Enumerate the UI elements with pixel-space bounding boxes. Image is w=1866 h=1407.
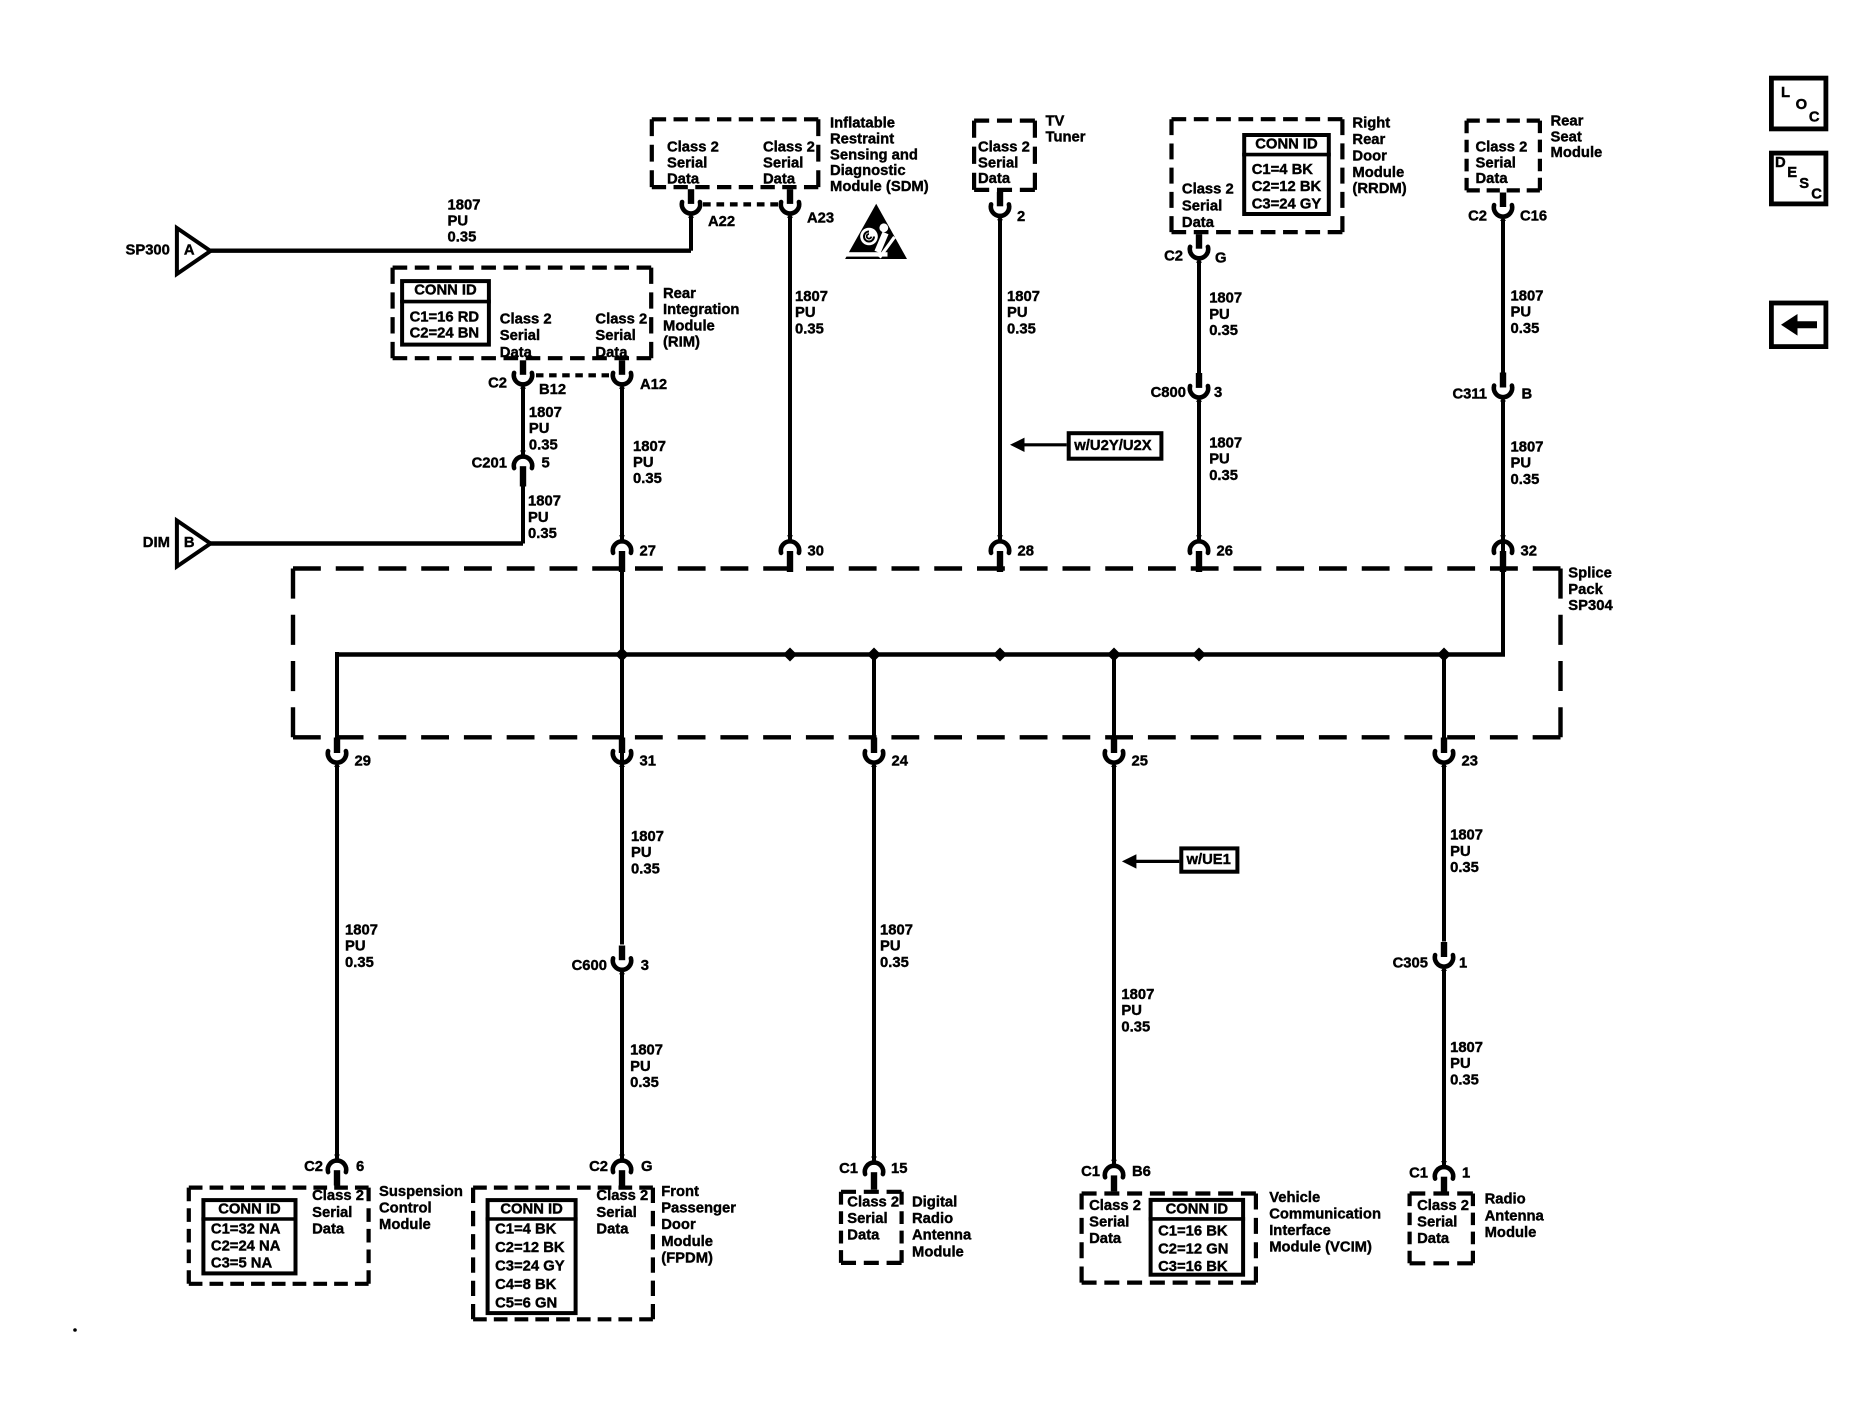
svg-text:Communication: Communication: [1269, 1207, 1381, 1223]
svg-text:PU: PU: [1209, 452, 1230, 468]
svg-text:Serial: Serial: [1417, 1215, 1457, 1231]
svg-text:Data: Data: [500, 345, 533, 361]
svg-text:Radio: Radio: [912, 1211, 953, 1227]
svg-text:C600: C600: [572, 958, 607, 974]
svg-text:Class 2: Class 2: [312, 1188, 364, 1204]
svg-text:Module: Module: [379, 1217, 431, 1233]
svg-text:Data: Data: [1182, 215, 1215, 231]
svg-text:Module: Module: [661, 1234, 713, 1250]
svg-text:PU: PU: [1450, 844, 1471, 860]
svg-text:B: B: [1522, 387, 1533, 403]
svg-text:6: 6: [356, 1159, 364, 1175]
svg-text:Data: Data: [312, 1221, 345, 1237]
svg-text:S: S: [1799, 176, 1809, 192]
svg-text:0.35: 0.35: [1511, 472, 1540, 488]
svg-text:Serial: Serial: [1476, 155, 1516, 171]
svg-text:15: 15: [891, 1161, 907, 1177]
svg-text:1807: 1807: [345, 923, 378, 939]
svg-text:CONN ID: CONN ID: [500, 1202, 563, 1218]
svg-text:Module (SDM): Module (SDM): [830, 179, 929, 195]
svg-text:1807: 1807: [1511, 440, 1544, 456]
svg-text:SP304: SP304: [1568, 598, 1613, 614]
svg-text:C4=8 BK: C4=8 BK: [495, 1277, 557, 1293]
svg-text:PU: PU: [1511, 456, 1532, 472]
svg-text:Data: Data: [978, 171, 1011, 187]
svg-text:Front: Front: [661, 1184, 699, 1200]
svg-text:3: 3: [641, 958, 649, 974]
svg-text:C3=24 GY: C3=24 GY: [495, 1259, 565, 1275]
svg-text:0.35: 0.35: [630, 1075, 659, 1091]
svg-text:0.35: 0.35: [448, 230, 477, 246]
svg-text:0.35: 0.35: [795, 321, 824, 337]
svg-text:1807: 1807: [630, 1043, 663, 1059]
svg-text:Tuner: Tuner: [1046, 129, 1086, 145]
svg-text:w/U2Y/U2X: w/U2Y/U2X: [1073, 438, 1151, 454]
svg-text:1: 1: [1462, 1166, 1470, 1182]
svg-text:DIM: DIM: [143, 535, 170, 551]
svg-text:PU: PU: [1209, 307, 1230, 323]
svg-text:1807: 1807: [1511, 289, 1544, 305]
svg-text:1807: 1807: [1209, 291, 1242, 307]
svg-text:26: 26: [1217, 543, 1233, 559]
svg-text:B: B: [184, 535, 195, 551]
svg-text:29: 29: [355, 754, 371, 770]
svg-text:Serial: Serial: [595, 328, 635, 344]
svg-text:(RIM): (RIM): [663, 335, 700, 351]
svg-text:A23: A23: [807, 211, 834, 227]
svg-text:28: 28: [1018, 543, 1034, 559]
svg-text:CONN ID: CONN ID: [414, 283, 477, 299]
svg-text:D: D: [1775, 155, 1786, 171]
svg-text:Module: Module: [663, 318, 715, 334]
svg-text:(FPDM): (FPDM): [661, 1250, 713, 1266]
svg-text:PU: PU: [1450, 1056, 1471, 1072]
svg-text:C1=16 BK: C1=16 BK: [1158, 1224, 1228, 1240]
svg-text:31: 31: [640, 754, 656, 770]
svg-text:30: 30: [808, 543, 824, 559]
svg-text:Pack: Pack: [1568, 582, 1603, 598]
svg-text:A: A: [184, 243, 195, 259]
svg-text:Data: Data: [847, 1228, 880, 1244]
svg-text:C1=16 RD: C1=16 RD: [410, 310, 480, 326]
svg-text:Class 2: Class 2: [763, 140, 815, 156]
svg-text:1807: 1807: [633, 439, 666, 455]
svg-text:Class 2: Class 2: [667, 140, 719, 156]
svg-text:Data: Data: [1417, 1231, 1450, 1247]
svg-text:Class 2: Class 2: [1089, 1198, 1141, 1214]
svg-text:Passenger: Passenger: [661, 1201, 736, 1217]
svg-text:PU: PU: [880, 939, 901, 955]
svg-text:Sensing and: Sensing and: [830, 147, 918, 163]
svg-text:1807: 1807: [1450, 828, 1483, 844]
svg-text:Module: Module: [1551, 145, 1603, 161]
svg-text:0.35: 0.35: [1450, 860, 1479, 876]
svg-text:Class 2: Class 2: [978, 140, 1030, 156]
svg-text:Data: Data: [763, 171, 796, 187]
svg-text:Suspension: Suspension: [379, 1184, 463, 1200]
svg-text:1807: 1807: [448, 197, 481, 213]
svg-text:Rear: Rear: [663, 286, 696, 302]
svg-text:23: 23: [1462, 754, 1478, 770]
svg-text:PU: PU: [528, 510, 549, 526]
svg-text:1807: 1807: [1007, 289, 1040, 305]
svg-text:0.35: 0.35: [631, 861, 660, 877]
svg-text:Control: Control: [379, 1201, 432, 1217]
svg-text:0.35: 0.35: [1007, 321, 1036, 337]
svg-text:PU: PU: [633, 455, 654, 471]
svg-text:Inflatable: Inflatable: [830, 116, 895, 132]
svg-text:Vehicle: Vehicle: [1269, 1190, 1320, 1206]
svg-text:Data: Data: [596, 1221, 629, 1237]
svg-text:C16: C16: [1520, 209, 1547, 225]
svg-text:Serial: Serial: [596, 1205, 636, 1221]
svg-text:PU: PU: [630, 1059, 651, 1075]
svg-text:C1=4 BK: C1=4 BK: [495, 1222, 557, 1238]
svg-text:C1=32 NA: C1=32 NA: [211, 1222, 281, 1238]
svg-text:A22: A22: [708, 214, 735, 230]
svg-text:Data: Data: [1089, 1231, 1122, 1247]
svg-text:TV: TV: [1046, 114, 1065, 130]
svg-text:Rear: Rear: [1352, 132, 1385, 148]
svg-text:0.35: 0.35: [529, 437, 558, 453]
svg-text:Data: Data: [595, 345, 628, 361]
svg-text:B6: B6: [1132, 1164, 1151, 1180]
svg-text:G: G: [1215, 251, 1227, 267]
svg-text:Class 2: Class 2: [1417, 1198, 1469, 1214]
svg-text:C3=5 NA: C3=5 NA: [211, 1256, 273, 1272]
svg-text:0.35: 0.35: [1209, 323, 1238, 339]
svg-text:Digital: Digital: [912, 1195, 957, 1211]
svg-text:C2=12 BK: C2=12 BK: [495, 1240, 565, 1256]
svg-text:C2: C2: [1468, 209, 1487, 225]
svg-text:Serial: Serial: [312, 1205, 352, 1221]
svg-text:Data: Data: [667, 171, 700, 187]
svg-text:C2: C2: [304, 1159, 323, 1175]
svg-text:CONN ID: CONN ID: [1166, 1201, 1229, 1217]
svg-text:PU: PU: [631, 845, 652, 861]
svg-text:CONN ID: CONN ID: [218, 1202, 281, 1218]
svg-text:C2=12 GN: C2=12 GN: [1158, 1241, 1228, 1257]
svg-text:0.35: 0.35: [345, 955, 374, 971]
svg-text:0.35: 0.35: [880, 955, 909, 971]
svg-text:Splice: Splice: [1568, 566, 1612, 582]
svg-text:27: 27: [640, 543, 656, 559]
svg-text:Class 2: Class 2: [500, 311, 552, 327]
svg-text:Class 2: Class 2: [596, 1188, 648, 1204]
svg-text:1807: 1807: [528, 494, 561, 510]
svg-text:Seat: Seat: [1551, 129, 1582, 145]
svg-text:A12: A12: [640, 377, 667, 393]
svg-text:O: O: [1796, 97, 1808, 113]
svg-text:C1=4 BK: C1=4 BK: [1252, 162, 1314, 178]
svg-text:1807: 1807: [1121, 987, 1154, 1003]
svg-text:Serial: Serial: [1089, 1215, 1129, 1231]
svg-text:C: C: [1809, 109, 1820, 125]
svg-text:24: 24: [892, 754, 909, 770]
svg-text:C1: C1: [839, 1161, 858, 1177]
svg-text:Serial: Serial: [978, 155, 1018, 171]
svg-text:C201: C201: [472, 456, 507, 472]
svg-text:Antenna: Antenna: [1485, 1208, 1545, 1224]
svg-text:0.35: 0.35: [1511, 321, 1540, 337]
svg-text:Diagnostic: Diagnostic: [830, 163, 906, 179]
svg-text:C311: C311: [1452, 387, 1487, 403]
svg-text:Door: Door: [661, 1217, 696, 1233]
svg-text:Module: Module: [912, 1244, 964, 1260]
svg-text:C800: C800: [1151, 385, 1186, 401]
svg-text:1807: 1807: [880, 923, 913, 939]
svg-text:0.35: 0.35: [1209, 468, 1238, 484]
svg-text:C: C: [1811, 187, 1822, 203]
svg-text:PU: PU: [1511, 305, 1532, 321]
svg-text:CONN ID: CONN ID: [1255, 137, 1318, 153]
svg-text:Class 2: Class 2: [1476, 140, 1528, 156]
svg-text:C2: C2: [589, 1159, 608, 1175]
svg-text:2: 2: [1017, 209, 1025, 225]
svg-text:Class 2: Class 2: [1182, 182, 1234, 198]
svg-text:1807: 1807: [1450, 1040, 1483, 1056]
svg-text:Antenna: Antenna: [912, 1228, 972, 1244]
svg-text:Rear: Rear: [1551, 114, 1584, 130]
svg-text:PU: PU: [529, 421, 550, 437]
svg-text:E: E: [1787, 165, 1797, 181]
svg-text:5: 5: [542, 456, 550, 472]
svg-text:0.35: 0.35: [528, 526, 557, 542]
svg-text:1807: 1807: [529, 405, 562, 421]
svg-text:C305: C305: [1393, 956, 1428, 972]
svg-text:Serial: Serial: [500, 328, 540, 344]
svg-text:C3=24 GY: C3=24 GY: [1252, 196, 1322, 212]
svg-text:Door: Door: [1352, 148, 1387, 164]
svg-text:Serial: Serial: [847, 1211, 887, 1227]
svg-text:G: G: [641, 1159, 653, 1175]
svg-text:Module: Module: [1485, 1225, 1537, 1241]
svg-text:C2=12 BK: C2=12 BK: [1252, 179, 1322, 195]
svg-text:C1: C1: [1409, 1166, 1428, 1182]
svg-text:Restraint: Restraint: [830, 132, 894, 148]
svg-text:Interface: Interface: [1269, 1223, 1331, 1239]
svg-text:B12: B12: [539, 382, 566, 398]
svg-text:Module (VCIM): Module (VCIM): [1269, 1240, 1372, 1256]
svg-text:Serial: Serial: [1182, 198, 1222, 214]
svg-text:Class 2: Class 2: [847, 1195, 899, 1211]
svg-text:C2: C2: [488, 376, 507, 392]
svg-text:Serial: Serial: [667, 156, 707, 172]
svg-text:3: 3: [1214, 385, 1222, 401]
svg-text:C3=16 BK: C3=16 BK: [1158, 1259, 1228, 1275]
svg-text:Radio: Radio: [1485, 1192, 1526, 1208]
svg-text:Module: Module: [1352, 165, 1404, 181]
svg-text:PU: PU: [448, 214, 469, 230]
svg-text:C5=6 GN: C5=6 GN: [495, 1296, 557, 1312]
svg-text:1807: 1807: [795, 289, 828, 305]
svg-text:C2: C2: [1164, 249, 1183, 265]
svg-text:0.35: 0.35: [1450, 1072, 1479, 1088]
svg-text:Integration: Integration: [663, 302, 739, 318]
svg-text:(RRDM): (RRDM): [1352, 181, 1406, 197]
svg-text:C1: C1: [1081, 1164, 1100, 1180]
svg-text:PU: PU: [1007, 305, 1028, 321]
svg-text:C2=24 BN: C2=24 BN: [410, 326, 480, 342]
svg-text:PU: PU: [1121, 1003, 1142, 1019]
svg-text:w/UE1: w/UE1: [1186, 852, 1231, 868]
svg-text:C2=24 NA: C2=24 NA: [211, 1239, 281, 1255]
svg-text:PU: PU: [345, 939, 366, 955]
svg-text:L: L: [1781, 85, 1790, 101]
svg-text:Data: Data: [1476, 171, 1509, 187]
svg-text:SP300: SP300: [125, 243, 169, 259]
svg-text:Class 2: Class 2: [595, 311, 647, 327]
svg-text:PU: PU: [795, 305, 816, 321]
svg-text:1: 1: [1459, 956, 1467, 972]
svg-text:0.35: 0.35: [633, 471, 662, 487]
svg-text:25: 25: [1132, 754, 1148, 770]
svg-text:Serial: Serial: [763, 156, 803, 172]
svg-text:0.35: 0.35: [1121, 1019, 1150, 1035]
svg-text:1807: 1807: [631, 829, 664, 845]
svg-text:Right: Right: [1352, 116, 1390, 132]
svg-text:32: 32: [1521, 543, 1537, 559]
svg-text:1807: 1807: [1209, 436, 1242, 452]
